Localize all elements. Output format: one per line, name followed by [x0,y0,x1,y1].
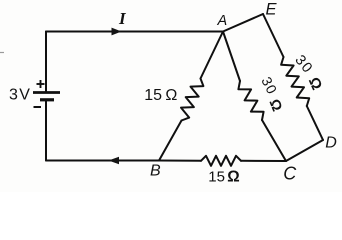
wire: resistor R3 bottom lead to node D [307,106,323,140]
svg-text:15: 15 [144,87,162,104]
wire: node E to resistor R3 top lead [263,14,284,57]
wire: resistor R2 bottom lead to node C [262,120,286,161]
wire left vertical: top corner down to battery long plate [45,32,47,92]
svg-text:Ω: Ω [227,168,239,185]
svg-text:3: 3 [9,86,18,103]
svg-text:Ω: Ω [165,87,177,104]
battery minus sign [34,106,42,108]
wire: node A to resistor R1 top lead [201,32,224,79]
resistor R4 15 ohm (between B and C) [201,156,241,166]
wire top: battery + terminal to node A [46,31,223,33]
wire: node A to resistor R2 top lead [223,32,240,82]
wire: node A to node E [223,14,263,32]
svg-text:C: C [283,164,297,184]
svg-text:D: D [325,135,337,152]
current arrow I on top wire (pointing right) [112,28,122,36]
svg-text:V: V [19,86,30,103]
stray scan mark left edge [0,52,4,54]
svg-text:B: B [150,163,161,180]
resistor R2 30 ohm (between A and C) [238,81,263,120]
battery B1 long plate (+) [33,91,60,94]
wire bottom: node B to resistor R4 left lead [159,160,201,162]
svg-text:A: A [217,13,228,29]
wire bottom: corner to node B [46,160,159,162]
resistor R1 15 ohm (between A and B) [181,79,203,121]
wire: resistor R1 bottom lead to node B [159,121,182,161]
svg-text:15: 15 [208,168,225,185]
battery plus sign [37,80,45,88]
svg-text:E: E [266,1,278,19]
wire left vertical: battery short plate down to bottom corner [45,101,47,161]
wire: node D to node C [286,140,323,161]
wire: resistor R4 right lead to node C [241,160,286,162]
resistor R3 30 ohm (between E and D) [281,57,309,106]
battery B1 short plate (-) [40,98,54,101]
current arrow on bottom wire (pointing left) [109,157,120,165]
